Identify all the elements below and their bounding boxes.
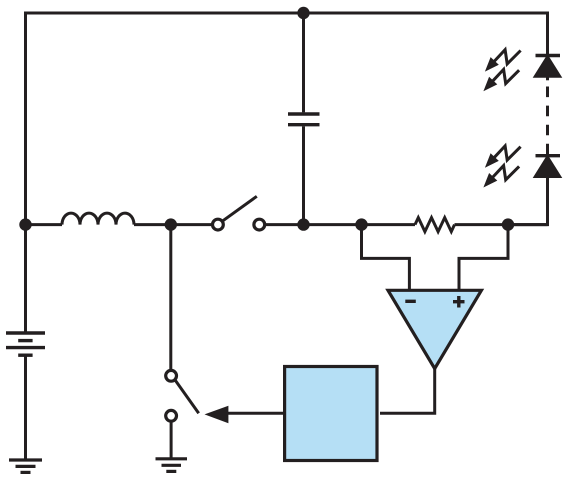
control arrowhead [205, 406, 229, 424]
node: left rail / middle rail junction [19, 218, 31, 230]
wire LED D1 stub [546, 75, 549, 80]
wire dashed LED string [546, 87, 549, 156]
wire resistor to node D [455, 223, 509, 226]
wire left rail to battery [24, 225, 27, 333]
wire right rail top to LED D1 [546, 12, 549, 56]
ground (switch S2) [156, 459, 188, 472]
wire op-amp non-inverting input [459, 225, 508, 290]
wire battery to ground [24, 355, 27, 460]
op-amp plus label [453, 296, 465, 308]
wire middle rail segment to inductor [26, 223, 63, 226]
wire capacitor branch upper [302, 13, 305, 112]
control block U2 [285, 367, 377, 461]
wire node D to right rail [508, 223, 548, 226]
LED D2 emission arrows [483, 146, 520, 188]
wire capacitor branch lower [302, 126, 305, 224]
resistor R1 [415, 218, 455, 232]
inductor L1 [62, 213, 134, 225]
wire top rail [26, 12, 548, 15]
node: capacitor / middle rail junction [297, 218, 309, 230]
wire op-amp inverting input [362, 225, 410, 290]
node: resistor right / non-inverting input junction [502, 218, 514, 230]
wire inductor to switch S1 [134, 223, 213, 226]
capacitor C1 [288, 114, 320, 125]
ground (left, battery return) [9, 460, 42, 472]
LED D2 [535, 156, 561, 177]
switch S1 lever [222, 196, 256, 221]
node: inductor / switch S2 branch junction [165, 218, 177, 230]
wire LED D2 to middle rail [508, 177, 548, 225]
LED D1 [535, 56, 561, 77]
op-amp U1 [388, 290, 481, 368]
switch S1 contact (right) [254, 219, 265, 230]
switch S2 contact (lower) [166, 410, 177, 421]
node: resistor left / inverting input junction [355, 218, 367, 230]
wire left rail upper [24, 12, 27, 225]
switch S1 contact (left) [213, 219, 224, 230]
battery B1 [6, 333, 45, 355]
wire node C to switch S2 [169, 225, 172, 371]
wire node C to resistor [362, 223, 416, 226]
switch S2 contact (upper) [166, 370, 177, 381]
LED D1 emission arrows [483, 50, 520, 92]
node: top rail / capacitor junction [297, 7, 309, 19]
wire control block to switch arrow [227, 412, 283, 415]
wire op-amp output [380, 369, 435, 414]
wire switch S2 to ground [170, 421, 173, 459]
op-amp minus label [405, 300, 416, 303]
wire switch to node B [265, 223, 362, 226]
switch S2 lever [175, 380, 199, 413]
